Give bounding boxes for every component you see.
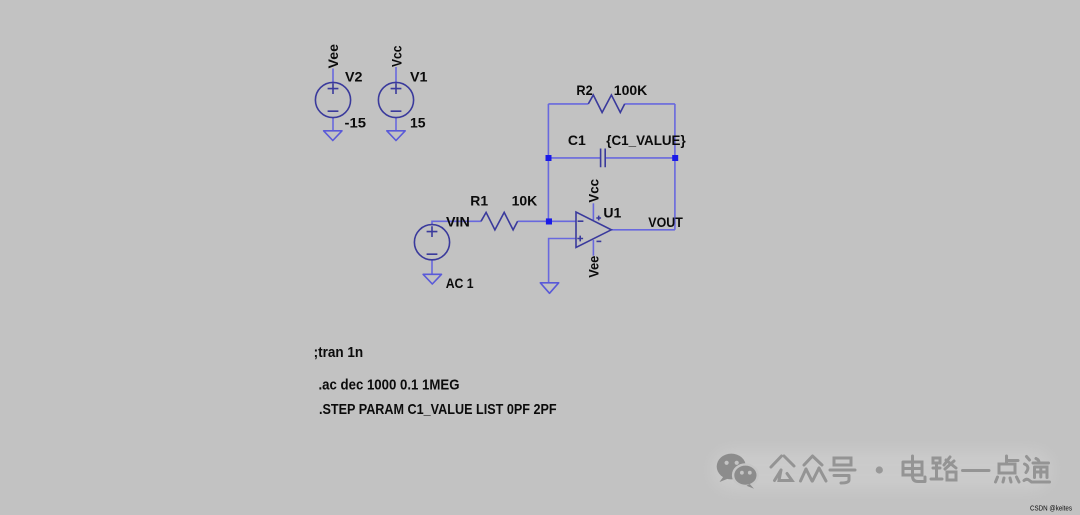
svg-text:Vcc: Vcc [389,45,405,67]
svg-text:VIN: VIN [446,213,470,229]
svg-text:Vee: Vee [586,256,602,278]
svg-text:C1: C1 [568,132,586,148]
svg-text:{C1_VALUE}: {C1_VALUE} [606,132,686,148]
svg-text:.ac dec 1000 0.1 1MEG: .ac dec 1000 0.1 1MEG [319,376,460,393]
svg-text:U1: U1 [603,204,621,220]
svg-text:;tran 1n: ;tran 1n [314,344,364,361]
svg-text:10K: 10K [512,192,538,208]
svg-text:100K: 100K [614,82,647,98]
svg-text:R1: R1 [470,193,488,209]
svg-text:R2: R2 [576,82,592,98]
svg-text:CSDN @keites: CSDN @keites [1030,506,1072,513]
svg-text:Vcc: Vcc [586,179,602,203]
svg-text:VOUT: VOUT [648,214,683,230]
svg-text:Vee: Vee [325,44,341,69]
svg-text:AC 1: AC 1 [446,275,474,291]
svg-text:-15: -15 [345,114,367,130]
svg-text:15: 15 [410,114,426,130]
svg-text:V2: V2 [345,69,363,85]
svg-text:V1: V1 [410,69,428,85]
svg-text:.STEP PARAM C1_VALUE LIST 0PF: .STEP PARAM C1_VALUE LIST 0PF 2PF [319,401,557,418]
